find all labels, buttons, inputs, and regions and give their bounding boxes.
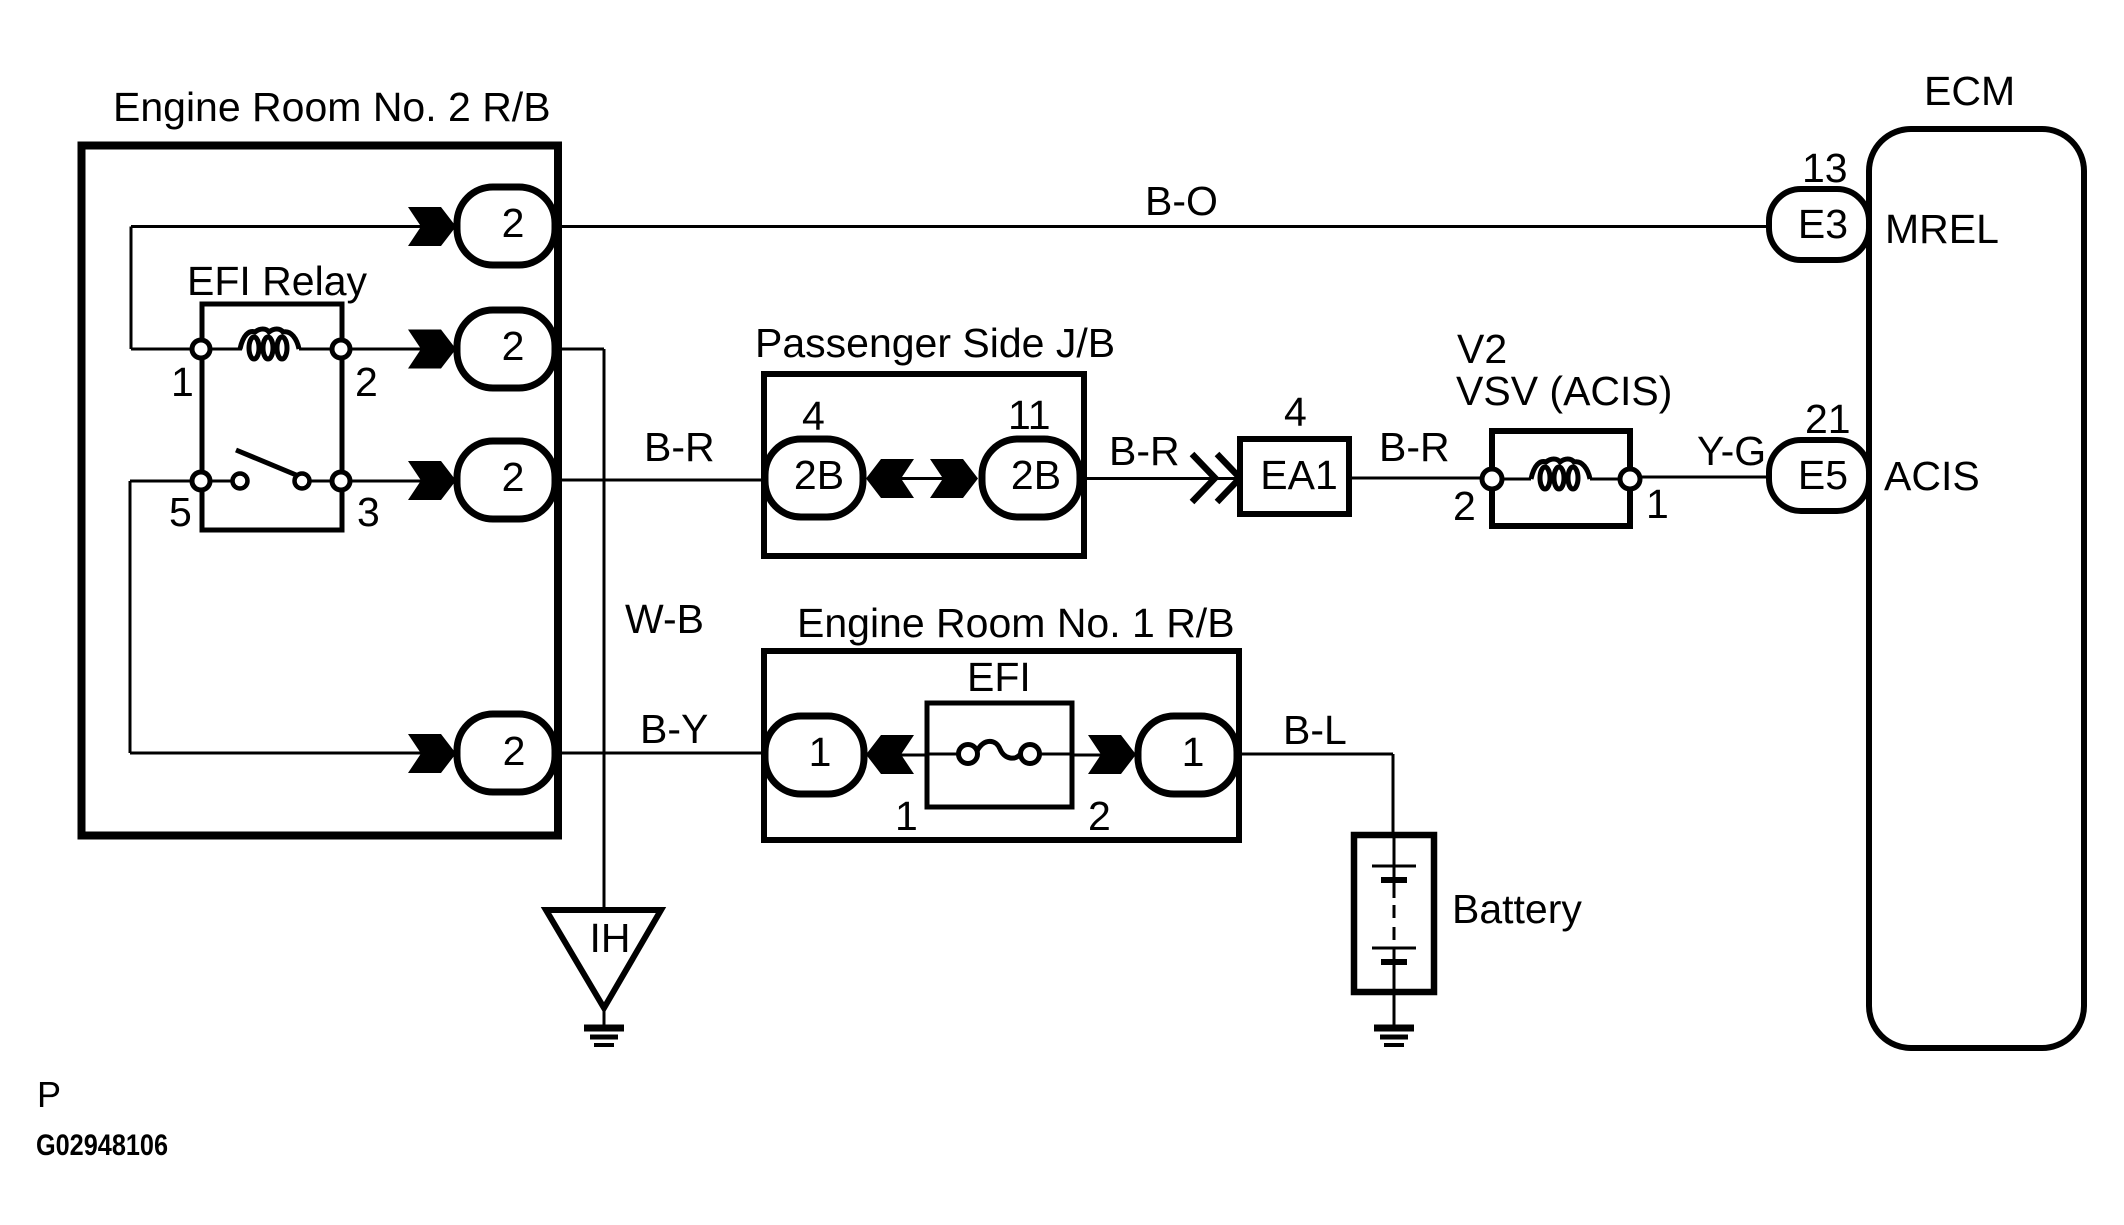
svg-text:W-B: W-B	[625, 596, 704, 642]
svg-text:E3: E3	[1798, 201, 1848, 247]
ground under battery	[1374, 1028, 1414, 1045]
wire IH triangle to ground	[603, 1008, 606, 1026]
svg-text:IH: IH	[590, 915, 631, 961]
arrow left into connector 1	[866, 735, 914, 774]
relay switch wires pin5-pin3	[210, 480, 423, 483]
svg-text:1: 1	[1646, 481, 1669, 527]
svg-text:21: 21	[1805, 396, 1851, 442]
VSV coil wires	[1502, 478, 1620, 481]
junction box: Engine Room No. 1 R/B outline	[764, 651, 1239, 840]
svg-text:5: 5	[169, 489, 192, 535]
svg-text:2: 2	[1453, 483, 1476, 529]
wire W-B: connector 2 row2 to IH ground	[555, 349, 604, 910]
svg-text:B-L: B-L	[1283, 707, 1347, 753]
svg-text:13: 13	[1802, 145, 1848, 191]
relay pin 3 terminal	[332, 472, 350, 490]
wire: MREL feed from connector 2 left loop	[131, 227, 423, 350]
battery internal line solid parts	[1393, 835, 1396, 992]
relay pin 5 terminal	[192, 472, 210, 490]
ECM outline	[1869, 129, 2084, 1048]
ECM connector E5	[1769, 440, 1869, 511]
svg-text:Y-G: Y-G	[1697, 428, 1766, 474]
wire between 2B connectors	[872, 477, 975, 480]
fuse element wires	[927, 753, 1072, 756]
arrow right into connector 2B	[930, 459, 978, 498]
wire Y-G: VSV to ECM E5	[1640, 476, 1770, 479]
VSV pin 1 terminal	[1620, 469, 1640, 489]
svg-text:2: 2	[502, 454, 525, 500]
battery box	[1354, 835, 1434, 992]
svg-text:11: 11	[1008, 392, 1051, 438]
svg-text:B-R: B-R	[1109, 428, 1180, 474]
svg-text:V2: V2	[1457, 326, 1507, 372]
arrow right into connector 1	[1088, 735, 1136, 774]
wire B-O: connector 2 to ECM E3	[555, 225, 1770, 228]
fuse terminal left	[959, 745, 978, 764]
VSV coil loops	[1531, 459, 1590, 489]
svg-text:E5: E5	[1798, 452, 1848, 498]
svg-text:EA1: EA1	[1260, 452, 1338, 498]
svg-text:Battery: Battery	[1452, 886, 1582, 932]
svg-text:ACIS: ACIS	[1884, 453, 1980, 499]
battery plate long top	[1372, 865, 1416, 868]
svg-text:2B: 2B	[1011, 452, 1061, 498]
svg-text:B-R: B-R	[644, 424, 715, 470]
connector 1 left	[765, 716, 864, 794]
svg-text:1: 1	[1182, 729, 1205, 775]
battery plate short top	[1381, 877, 1407, 883]
svg-text:P: P	[37, 1074, 61, 1115]
connector EA1 box	[1240, 439, 1349, 514]
svg-text:2: 2	[1088, 793, 1111, 839]
battery internal dashed line	[1393, 905, 1396, 947]
svg-text:4: 4	[802, 393, 825, 439]
svg-text:B-O: B-O	[1145, 178, 1218, 224]
svg-text:1: 1	[895, 793, 918, 839]
junction box: Passenger Side J/B outline	[764, 374, 1084, 556]
svg-text:3: 3	[357, 489, 380, 535]
VSV pin 2 terminal	[1482, 469, 1502, 489]
battery plate long bottom	[1372, 947, 1416, 950]
arrow into connector 2 (row 3)	[408, 461, 456, 500]
svg-text:Passenger Side J/B: Passenger Side J/B	[755, 320, 1115, 366]
svg-text:VSV (ACIS): VSV (ACIS)	[1456, 368, 1672, 414]
svg-text:1: 1	[171, 359, 194, 405]
svg-text:B-Y: B-Y	[640, 706, 708, 752]
solenoid VSV box	[1492, 431, 1630, 526]
arrow left into connector 2B	[866, 459, 914, 498]
relay coil loops	[240, 329, 299, 359]
svg-text:2: 2	[503, 728, 526, 774]
wire B-Y: connector 2 row4 to Engine Room No 1 R/B	[555, 752, 766, 755]
wire battery to ground	[1393, 992, 1396, 1026]
relay switch contact left	[233, 474, 248, 489]
svg-text:2B: 2B	[794, 452, 844, 498]
fuse terminal right	[1021, 745, 1040, 764]
arrow into connector 2 (row 1)	[408, 207, 456, 246]
svg-text:MREL: MREL	[1885, 206, 1999, 252]
connector 2 (row 3)	[457, 441, 555, 519]
inline connector chevrons	[1192, 454, 1240, 502]
connector 2 (row 4)	[457, 714, 555, 792]
svg-text:4: 4	[1284, 389, 1307, 435]
svg-text:G02948106: G02948106	[36, 1129, 168, 1162]
connector 2 (row 2)	[457, 310, 555, 388]
connector 2 (row 1)	[457, 187, 555, 265]
svg-text:Engine Room No. 1 R/B: Engine Room No. 1 R/B	[797, 600, 1235, 646]
wire B-R: connector 2 row3 to Passenger Side J/B	[555, 479, 766, 482]
svg-text:2: 2	[355, 359, 378, 405]
svg-text:2: 2	[502, 323, 525, 369]
svg-text:EFI: EFI	[967, 654, 1031, 700]
wire B-R: EA1 to VSV	[1349, 477, 1482, 480]
wire B-L: connector 1 to battery	[1237, 754, 1393, 834]
wire B-R: 2B to EA1	[1080, 477, 1240, 480]
ground triangle IH	[546, 910, 661, 1008]
relay switch contact right	[295, 474, 310, 489]
svg-text:1: 1	[809, 729, 832, 775]
connector 1 right	[1138, 716, 1237, 794]
relay pin 1 terminal	[192, 340, 210, 358]
connector 2B right	[982, 439, 1080, 517]
relay switch blade	[236, 450, 301, 477]
relay coil wire pin1 to pin2	[210, 348, 423, 351]
wire across fuse row	[866, 754, 1138, 757]
junction box: Engine Room No. 2 R/B outline	[82, 146, 559, 836]
battery plate short bottom	[1381, 959, 1407, 965]
relay EFI Relay outline	[202, 304, 342, 530]
svg-text:2: 2	[502, 200, 525, 246]
arrow into connector 2 (row 2)	[408, 330, 456, 369]
relay pin 2 terminal	[332, 340, 350, 358]
svg-text:EFI Relay: EFI Relay	[187, 258, 367, 304]
arrow into connector 2 (row 4)	[408, 734, 456, 773]
ground under IH	[584, 1028, 624, 1045]
svg-text:ECM: ECM	[1924, 68, 2015, 114]
wire: pin 5 row and loop down to connector 2 (row 4)	[130, 481, 423, 753]
ECM connector E3	[1769, 189, 1869, 260]
fuse EFI box	[927, 703, 1072, 807]
connector 2B left	[765, 439, 863, 517]
svg-text:B-R: B-R	[1379, 424, 1450, 470]
fuse element squiggle	[977, 741, 1022, 758]
svg-text:Engine Room No. 2 R/B: Engine Room No. 2 R/B	[113, 84, 551, 130]
